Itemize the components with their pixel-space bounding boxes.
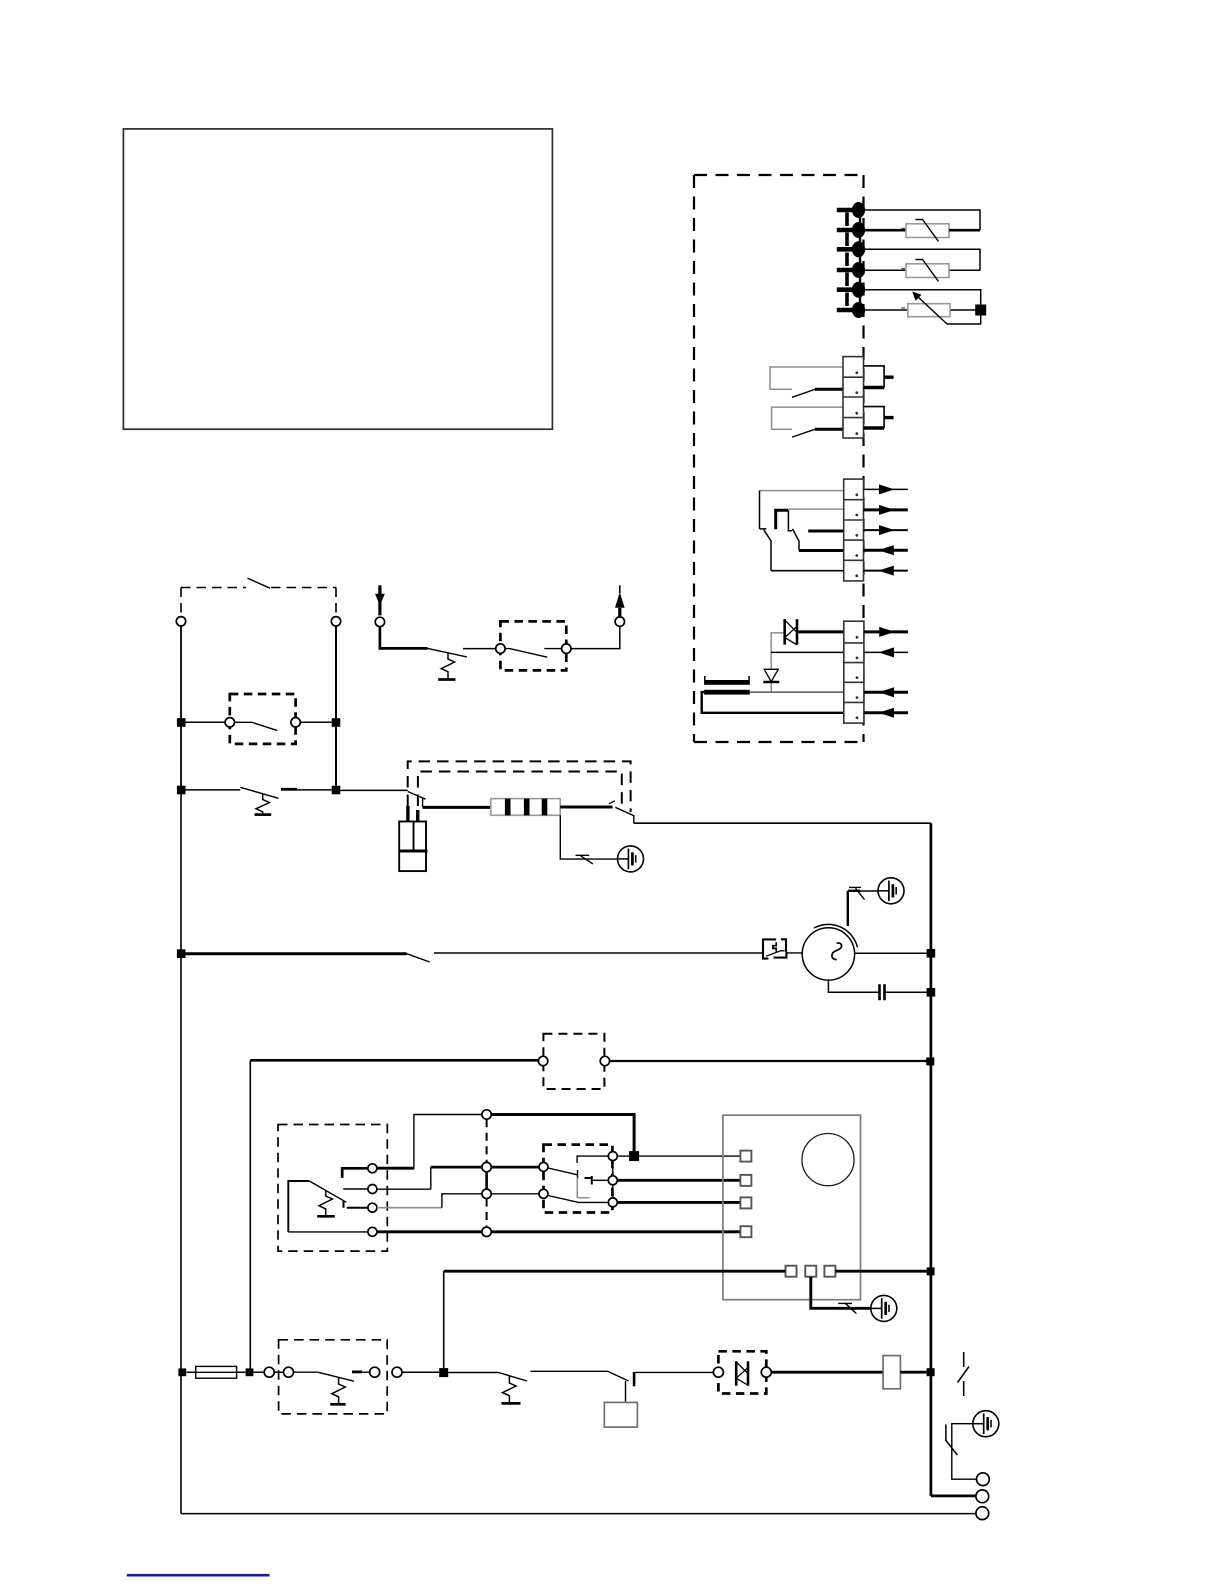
thermistor TH2 bbox=[902, 260, 950, 282]
main switch blade bbox=[407, 954, 430, 962]
switch SW-D thick contact bbox=[776, 510, 788, 529]
contact K3 terminal left bbox=[538, 1056, 547, 1065]
variable thermistor TH3 bbox=[902, 292, 951, 325]
connector mark board ground bbox=[838, 1303, 856, 1314]
power switch spring bbox=[332, 1377, 346, 1403]
aux switch blade bbox=[498, 1373, 527, 1382]
switch SW-A blade bbox=[792, 389, 815, 397]
interlock switch blade bbox=[248, 578, 271, 588]
switch SW-D leg bbox=[788, 510, 792, 531]
connector CN3 pin dots bbox=[855, 493, 858, 577]
switch SW-B blade bbox=[792, 429, 815, 437]
ground G3 bbox=[871, 1295, 897, 1321]
board transformer circle bbox=[802, 1134, 854, 1186]
wire triac to relay coil bbox=[771, 1371, 883, 1374]
plug loop CN2-lower bbox=[864, 407, 885, 428]
switch SW-A gray loop bbox=[770, 367, 843, 389]
contact K2 blade bbox=[505, 649, 547, 658]
connector pair terminal d bbox=[392, 1367, 402, 1377]
triac module dashed box bbox=[718, 1351, 766, 1393]
power outlet arrow bbox=[615, 585, 625, 617]
harness arrow CN3-4 in bbox=[864, 545, 908, 555]
wire row 722 right bbox=[300, 721, 332, 723]
electrode bar upper bbox=[704, 676, 750, 685]
harness arrow CN4-4 in bbox=[864, 687, 908, 697]
wire pin2 thick lead bbox=[865, 229, 906, 232]
contact K1 terminal right bbox=[291, 718, 300, 727]
wire K4 R3 to board pin3 bbox=[617, 1201, 740, 1204]
relay coil RY bbox=[883, 1356, 900, 1389]
left bus vertical bbox=[180, 626, 182, 1514]
wire thermistor loop 3 bbox=[865, 290, 981, 324]
electrode bar lower bbox=[704, 690, 750, 695]
diode D1 bbox=[763, 669, 779, 682]
switch SW-A pivot lead bbox=[815, 388, 843, 391]
node bus 953 bbox=[927, 949, 936, 958]
board pin P1 bbox=[740, 1151, 751, 1162]
node R1 bbox=[332, 718, 341, 727]
wire K4 R1 to node bbox=[617, 1155, 629, 1157]
wire node to board pin1 bbox=[639, 1155, 740, 1157]
node fuse left bbox=[178, 1368, 186, 1376]
wire live row to B1 bbox=[444, 1270, 786, 1273]
power switch fixed contact bbox=[352, 1371, 362, 1374]
wire t2 riser bbox=[377, 1167, 431, 1189]
node L2 bbox=[177, 786, 186, 795]
wire t3 riser bbox=[442, 1194, 482, 1208]
middle gang dashed lower bbox=[486, 1199, 488, 1228]
wire to relay K2 bbox=[463, 648, 496, 650]
middle gang dashed upper bbox=[486, 1119, 488, 1162]
harness arrow CN4-1 out bbox=[864, 627, 908, 637]
thermostat NO contact bbox=[342, 1168, 368, 1178]
wire main switch row bbox=[186, 952, 407, 955]
wire row 1060 right bbox=[610, 1060, 927, 1062]
thermal switch TS1 blade bbox=[240, 787, 278, 798]
contact K2 fixed lead bbox=[544, 648, 561, 650]
selector K4 terminal R1 bbox=[608, 1152, 617, 1161]
selector K4 terminal L1 bbox=[539, 1162, 548, 1171]
harness arrow CN4-2 in bbox=[864, 647, 908, 657]
node fuse right bbox=[246, 1368, 254, 1376]
terminal mid row D bbox=[482, 1227, 491, 1236]
thermostat terminal 1 bbox=[368, 1164, 377, 1173]
power switch foot bar bbox=[330, 1403, 345, 1406]
wire row 1060 drop bbox=[249, 1060, 251, 1368]
dashed interlock loop side wires bbox=[181, 588, 336, 617]
middle gang solid bbox=[485, 1172, 488, 1189]
relay contact box K1 bbox=[230, 694, 296, 744]
harness arrow CN3-2 out bbox=[864, 505, 908, 515]
wire to live node bbox=[402, 1371, 439, 1373]
wire right branch lower bbox=[335, 727, 337, 786]
wire row 722 left bbox=[186, 721, 226, 723]
selector K4 upper contact bbox=[577, 1156, 608, 1163]
selector K4 terminal R3 bbox=[608, 1198, 617, 1207]
hyperlink underline bbox=[127, 1574, 270, 1577]
wire t3 gray bbox=[377, 1207, 442, 1209]
board pin P2 bbox=[740, 1175, 751, 1186]
heater enclosure inner dashed bbox=[418, 772, 622, 807]
connector mark right of bus bbox=[958, 1352, 970, 1396]
wire heater to right bus bbox=[634, 822, 931, 824]
board pin P3 bbox=[740, 1197, 751, 1208]
node R2 bbox=[332, 786, 341, 795]
wire row 1060 left bbox=[250, 1059, 538, 1062]
connector CN1 pin bus bbox=[859, 206, 861, 313]
wire mid bottom row bbox=[530, 1370, 607, 1372]
selector K4 blade 1 bbox=[548, 1168, 578, 1179]
right bus bottom lead bbox=[931, 1495, 976, 1498]
wire plate drop to solenoid bbox=[625, 1381, 627, 1402]
wire row 790 left bbox=[186, 789, 241, 791]
selector K4 blade 2 bbox=[548, 1196, 578, 1203]
terminal circle E1 bbox=[977, 1473, 990, 1486]
terminal circle left bbox=[176, 617, 185, 626]
wire contact to terminal bbox=[362, 1371, 370, 1373]
connector mark heater ground bbox=[576, 855, 593, 864]
switch SW-C blade bbox=[764, 530, 771, 571]
run capacitor C1 bbox=[880, 984, 885, 1000]
node live rise bbox=[439, 1368, 448, 1377]
node main row left bbox=[177, 949, 186, 958]
wire t1 thick stub bbox=[377, 1167, 414, 1170]
thermostat common wire bbox=[288, 1231, 368, 1233]
board pin B1 bbox=[786, 1266, 797, 1277]
wire CN4 pin4 bbox=[750, 691, 844, 693]
wire to fan motor bbox=[434, 952, 763, 954]
wire capacitor to bus bbox=[886, 991, 927, 993]
switch SW-C common leg bbox=[760, 491, 767, 529]
terminal circle E3 bbox=[976, 1507, 989, 1520]
thermostat common arm bbox=[288, 1181, 309, 1232]
ground G4 bbox=[973, 1411, 999, 1437]
thermal switch TS1 heater spring bbox=[256, 794, 270, 814]
node L1 bbox=[177, 718, 186, 727]
connector block CN3 cells bbox=[844, 479, 864, 581]
contact K1 wire stub bbox=[235, 721, 253, 723]
selector K4 gray bracket bbox=[577, 1178, 589, 1199]
relay contact box K3 bbox=[543, 1034, 604, 1089]
aux switch foot bar bbox=[502, 1402, 521, 1405]
board pin B3 bbox=[824, 1266, 835, 1277]
thermal switch TS1 foot bar bbox=[255, 813, 272, 816]
triac terminal right bbox=[761, 1367, 771, 1377]
node junction thermistor 3 bbox=[975, 305, 986, 316]
connector mark motor ground bbox=[849, 887, 865, 899]
fan motor FM bbox=[802, 924, 857, 980]
node bus 1372 bbox=[927, 1368, 935, 1376]
right bus vertical bbox=[930, 823, 933, 1496]
wire bottom row thick bbox=[377, 1230, 740, 1233]
power switch wire stub bbox=[294, 1371, 318, 1373]
relay contact box K2 bbox=[500, 621, 566, 670]
wire inlet drop bbox=[380, 627, 428, 649]
connector CN1 pins 1-6 bbox=[852, 202, 865, 318]
contact plate bar bbox=[633, 1372, 636, 1386]
connector pair terminal a bbox=[264, 1367, 274, 1377]
wire connector gap bbox=[274, 1371, 283, 1373]
wire fuse to connector bbox=[253, 1371, 264, 1373]
terminal mid row B bbox=[482, 1162, 491, 1171]
thermostat blade tip leg bbox=[344, 1201, 369, 1208]
harness arrow CN3-1 out bbox=[864, 484, 908, 494]
wire CN3 pin5 bbox=[771, 570, 844, 572]
selector K4 mid lead bbox=[592, 1179, 608, 1181]
surge suppressor gray riser bbox=[771, 633, 785, 692]
legend box bbox=[123, 129, 552, 429]
indoor unit dashed enclosure bbox=[694, 175, 864, 742]
selector K4 right rail bbox=[612, 1161, 614, 1198]
triac symbol bbox=[736, 1361, 748, 1385]
wire top row thick bbox=[491, 1115, 634, 1152]
wire CN3 pin3 bbox=[808, 530, 844, 533]
wire CN4 pin2 bbox=[771, 651, 844, 653]
thermostat box dashed bbox=[278, 1125, 387, 1252]
contact K1 blade bbox=[252, 722, 277, 730]
contact K3 terminal right bbox=[600, 1056, 609, 1065]
wire thermistor loop 2 bbox=[865, 249, 980, 270]
wire right branch upper bbox=[335, 626, 337, 718]
selector K4 terminal R2 bbox=[608, 1176, 617, 1185]
thermostat stub 2 bbox=[343, 1188, 368, 1190]
power outlet terminal bbox=[615, 617, 624, 626]
surge suppressor ZNR bbox=[785, 619, 797, 645]
heater enclosure outer dashed bbox=[408, 761, 631, 812]
connector pair terminal c bbox=[370, 1367, 380, 1377]
thermal switch TS1 fixed contact bbox=[281, 788, 297, 791]
wire to ground G2 bbox=[860, 890, 878, 892]
wire thermistor loop 1 bbox=[865, 210, 980, 230]
thermostat foot bar bbox=[317, 1215, 335, 1218]
wire to heater box bbox=[340, 789, 408, 791]
wire B2 ground drop bbox=[811, 1277, 871, 1309]
wire live node right bbox=[448, 1372, 498, 1374]
wire ground to terminal bbox=[952, 1424, 977, 1480]
board pin P4 bbox=[740, 1226, 751, 1237]
wire left branch upper bbox=[180, 626, 182, 718]
switch SW-B gray loop bbox=[772, 407, 843, 429]
terminal mid top bbox=[482, 1110, 491, 1119]
solenoid box bbox=[604, 1402, 637, 1427]
power inlet arrow bbox=[375, 585, 385, 615]
contact K2 terminal left bbox=[496, 644, 505, 653]
node bus 1060 bbox=[926, 1057, 934, 1065]
power switch blade bbox=[318, 1372, 354, 1381]
contact K2 terminal right bbox=[562, 644, 571, 653]
harness arrow CN3-3 out bbox=[864, 525, 908, 535]
heater terminal stubs bbox=[408, 806, 418, 822]
switch SW-D blade bbox=[793, 529, 800, 551]
heater outlet switch blade bbox=[615, 807, 634, 823]
thermal fuse TF1 foot bar bbox=[438, 678, 455, 681]
selector K4 mid contact bbox=[585, 1176, 593, 1185]
ground G2 bbox=[878, 878, 904, 904]
plug loop CN2-upper thick lead bbox=[864, 377, 894, 387]
wire heater ground tap bbox=[560, 815, 617, 859]
contact switch blade bbox=[608, 1371, 629, 1381]
wire CN4 pin1 bbox=[797, 630, 844, 633]
thermostat blade bbox=[309, 1181, 346, 1202]
wire left branch lower bbox=[180, 727, 182, 786]
terminal mid row C bbox=[482, 1189, 491, 1198]
connector CN1 pin stubs bbox=[837, 210, 859, 310]
power switch box dashed bbox=[279, 1340, 388, 1414]
wire CN3 pin4 bbox=[799, 549, 844, 552]
selector box K4 dashed bbox=[544, 1145, 613, 1213]
thermistor TH1 bbox=[902, 220, 981, 242]
heater element R1 bbox=[491, 799, 560, 816]
heater outlet switch tick bbox=[609, 801, 615, 804]
switch SW-C gray lead bbox=[759, 490, 843, 492]
wire heater out bbox=[560, 806, 612, 809]
wire B3 to right bus bbox=[835, 1270, 926, 1273]
wire relay coil to bus bbox=[900, 1371, 926, 1374]
connector block CN4 cells bbox=[844, 621, 864, 723]
node bus 1271 bbox=[927, 1267, 935, 1275]
wire t1 riser bbox=[377, 1115, 482, 1169]
wire plate to triac bbox=[635, 1371, 713, 1373]
contact K1 terminal left bbox=[225, 718, 234, 727]
wire row C to K4 bbox=[491, 1193, 539, 1195]
control board PCB bbox=[723, 1115, 861, 1300]
selector K4 terminal L2 bbox=[539, 1189, 548, 1198]
connector CN1 dashed gang line bbox=[845, 213, 849, 309]
wire CN4 pin5 bbox=[702, 692, 844, 713]
ground G1 bbox=[618, 846, 644, 872]
terminal circle E2 bbox=[976, 1490, 989, 1503]
heater terminal block bbox=[399, 822, 427, 872]
thermal protector TP bbox=[763, 939, 786, 958]
selector K4 lower lead bbox=[577, 1201, 608, 1203]
wire live rise from fuse row bbox=[443, 1271, 445, 1368]
heater inlet switch blade bbox=[408, 792, 426, 808]
aux switch spring bbox=[503, 1376, 517, 1403]
wire row 790 right bbox=[297, 789, 332, 791]
thermal fuse TF1 blade bbox=[428, 648, 467, 657]
connector block CN2 cells bbox=[843, 357, 864, 438]
node board pin1 feed bbox=[629, 1151, 639, 1161]
fuse F1 bbox=[187, 1366, 246, 1378]
wire heater feed bbox=[423, 806, 491, 809]
harness arrow CN3-5 in bbox=[864, 566, 908, 576]
wire TP to motor bbox=[787, 952, 804, 954]
bottom bus wire bbox=[181, 1513, 976, 1515]
board pin B2 bbox=[805, 1266, 816, 1277]
connector CN2 pin dots bbox=[855, 371, 858, 435]
dashed interlock loop top wire bbox=[181, 587, 336, 589]
switch SW-B pivot lead bbox=[815, 428, 843, 431]
wire motor frame to ground bbox=[848, 891, 860, 926]
thermostat terminal 3 bbox=[368, 1203, 377, 1212]
thermal fuse TF1 spring bbox=[441, 653, 454, 679]
wire outlet rise bbox=[571, 626, 620, 648]
terminal circle right bbox=[331, 617, 340, 626]
wire motor bottom bbox=[828, 979, 878, 992]
connector CN4 pin dots bbox=[856, 636, 859, 719]
thermostat terminal 2 bbox=[368, 1185, 377, 1194]
thermostat terminal 4 bbox=[368, 1227, 377, 1236]
switch SW-D gray lead bbox=[788, 508, 844, 510]
connector mark ground lead bbox=[945, 1425, 957, 1456]
wire row B thick bbox=[431, 1166, 482, 1169]
harness arrow CN4-5 in bbox=[864, 708, 908, 718]
power inlet terminal bbox=[375, 617, 384, 626]
node bus 992 bbox=[927, 988, 936, 997]
thermostat spring bbox=[319, 1191, 333, 1216]
plug loop CN2-lower thick lead bbox=[864, 418, 894, 428]
connector pair terminal b bbox=[284, 1367, 294, 1377]
plug loop CN2-upper bbox=[864, 366, 885, 388]
triac terminal left bbox=[713, 1367, 723, 1377]
wire motor to right bus bbox=[855, 952, 927, 954]
wire K4 R2 to board pin2 bbox=[617, 1179, 740, 1182]
wire row B to K4 bbox=[491, 1166, 539, 1169]
